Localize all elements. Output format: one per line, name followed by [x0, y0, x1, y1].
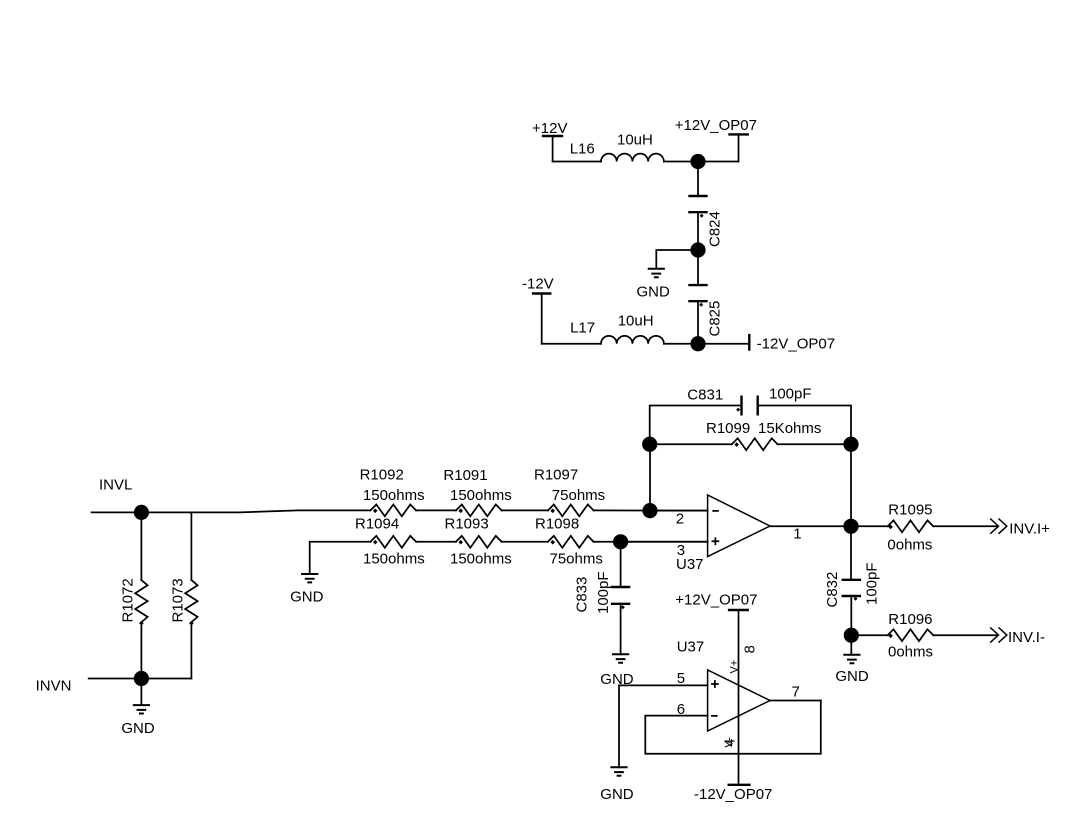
node INV.I- junction	[844, 628, 859, 643]
wire pin2 to op-amp	[650, 510, 708, 512]
node -12V_OP07 junction	[690, 336, 705, 351]
pin number 2	[676, 511, 684, 528]
inductor L16	[570, 141, 664, 162]
node +12V_OP07 junction	[690, 154, 705, 169]
node feedback right junction	[843, 437, 858, 452]
svg-text:C825: C825	[707, 301, 724, 337]
pin name V+	[728, 660, 740, 674]
wire pin3 to op-amp	[621, 541, 708, 543]
value 10uH of L17	[618, 313, 654, 330]
wire pin3 node to C833	[620, 542, 622, 587]
capacitor C833	[574, 577, 631, 613]
power port -12V	[522, 276, 554, 344]
ground	[600, 767, 634, 803]
svg-text:10uH: 10uH	[617, 131, 653, 148]
value 150ohms of R1091	[450, 487, 512, 504]
wire pin 8 power	[738, 610, 740, 785]
resistor R1073	[170, 578, 198, 625]
node GND junction	[690, 242, 705, 257]
wire feedback to output node	[850, 444, 852, 526]
pin number 8	[741, 645, 758, 653]
svg-text:150ohms: 150ohms	[363, 551, 425, 568]
net label INVL	[99, 477, 132, 494]
capacitor C825	[688, 285, 723, 336]
designator U37 second half	[677, 639, 705, 656]
wire up to C831	[650, 406, 742, 445]
svg-text:150ohms: 150ohms	[450, 487, 512, 504]
svg-text:U37: U37	[677, 639, 705, 656]
value 15Kohms of R1099	[758, 420, 821, 437]
wire op-amp output	[770, 525, 851, 527]
svg-text:150ohms: 150ohms	[363, 487, 425, 504]
wire R1091 to R1097	[502, 509, 548, 511]
resistor R1095	[888, 502, 934, 533]
svg-text:-12V_OP07: -12V_OP07	[694, 786, 772, 803]
wire INVL	[92, 510, 371, 512]
resistor R1094	[355, 516, 416, 548]
resistor R1091	[443, 467, 501, 516]
wire R1073 to INVN wire	[190, 622, 192, 678]
svg-text:100pF: 100pF	[864, 562, 881, 605]
svg-text:+12V_OP07: +12V_OP07	[675, 592, 757, 609]
svg-text:INV.I+: INV.I+	[1009, 520, 1050, 537]
svg-text:R1099: R1099	[706, 420, 750, 437]
svg-text:R1073: R1073	[170, 578, 187, 622]
wire junction to ground	[850, 635, 852, 655]
wire C831 to right side	[758, 406, 851, 445]
wire R1092 to R1091	[416, 509, 456, 511]
wire junction to C824	[697, 162, 699, 197]
svg-text:-12V: -12V	[522, 276, 554, 293]
wire C825 to -12V_OP07 node	[697, 301, 699, 344]
svg-text:R1072: R1072	[120, 578, 137, 622]
wire R1093 to R1098	[502, 541, 548, 543]
svg-text:GND: GND	[835, 668, 869, 685]
power port +12V_OP07 at pin 8	[675, 592, 757, 611]
capacitor C832	[824, 572, 861, 608]
value 75ohms of R1097	[552, 487, 605, 504]
wire to ground	[140, 679, 142, 706]
svg-text:R1092: R1092	[360, 467, 404, 484]
svg-text:+12V_OP07: +12V_OP07	[675, 117, 757, 134]
resistor R1092	[360, 467, 416, 517]
wire R1095 to off-page	[933, 525, 996, 527]
inductor L17	[570, 320, 664, 344]
wire R1072 to INVN node	[140, 622, 142, 678]
wire output node to C832	[850, 526, 852, 580]
capacitor C831	[687, 387, 757, 416]
svg-text:R1093: R1093	[445, 516, 489, 533]
value 10uH of L16	[617, 131, 653, 148]
svg-text:V+: V+	[728, 660, 740, 674]
pin number 4	[722, 739, 739, 747]
wire R1096 to off-page	[933, 634, 996, 636]
value 150ohms of R1092	[363, 487, 425, 504]
wire op-amp B output	[770, 700, 821, 702]
ground	[612, 654, 629, 662]
svg-text:R1095: R1095	[888, 502, 932, 519]
wire -12V to L17	[542, 343, 601, 345]
pin number 7	[792, 684, 800, 701]
wire R1094 to R1093	[416, 541, 456, 543]
net label GND at pin5	[600, 671, 634, 688]
ground	[121, 705, 154, 737]
value 100pF of C831	[769, 386, 812, 403]
svg-text:L17: L17	[570, 320, 595, 337]
wire R1098 to op-amp pin 3	[594, 541, 708, 543]
svg-text:R1098: R1098	[535, 516, 579, 533]
value 100pF of C833	[595, 571, 612, 614]
wire C824 to GND node	[697, 212, 699, 250]
svg-text:75ohms: 75ohms	[550, 551, 603, 568]
svg-text:C833: C833	[574, 577, 591, 613]
node INVN junction	[134, 671, 149, 686]
svg-text:150ohms: 150ohms	[450, 551, 512, 568]
value 100pF of C832	[864, 562, 881, 605]
node INVL junction	[134, 505, 149, 520]
wire C832 to lower node	[850, 596, 852, 635]
off-page connector INV.I+	[990, 519, 1050, 538]
value 0ohms of R1095	[887, 537, 932, 554]
wire GND node to C825	[697, 250, 699, 285]
power port -12V_OP07	[749, 335, 835, 352]
resistor R1072	[120, 578, 148, 625]
node pin3 junction	[613, 534, 628, 549]
op-amp U37 first half	[708, 495, 770, 557]
wire down to ground	[618, 685, 620, 767]
svg-text:10uH: 10uH	[618, 313, 654, 330]
pin number 3	[677, 542, 685, 559]
svg-text:+12V: +12V	[532, 120, 567, 137]
pin number 6	[677, 701, 685, 718]
svg-text:C831: C831	[687, 387, 723, 404]
value 150ohms of R1093	[450, 551, 512, 568]
node pin2 junction	[642, 503, 657, 518]
wire R1097 to op-amp pin 2	[594, 509, 708, 511]
wire to R1095	[851, 525, 888, 527]
svg-text:100pF: 100pF	[769, 386, 812, 403]
svg-text:V-: V-	[724, 737, 736, 748]
designator U37	[676, 556, 704, 573]
svg-text:0ohms: 0ohms	[887, 537, 932, 554]
svg-text:2: 2	[676, 511, 684, 528]
pin name V-	[724, 737, 736, 748]
wire to R1072	[140, 512, 142, 580]
wire C833 to ground	[620, 604, 622, 655]
value 0ohms of R1096	[888, 644, 933, 661]
ground for R1094 row	[290, 574, 324, 606]
svg-text:GND: GND	[290, 589, 324, 606]
svg-text:5: 5	[677, 670, 685, 687]
svg-text:GND: GND	[121, 720, 154, 737]
svg-text:7: 7	[792, 684, 800, 701]
svg-text:R1097: R1097	[534, 467, 578, 484]
wire INVN	[89, 678, 192, 680]
svg-text:INVN: INVN	[36, 678, 72, 695]
svg-text:R1091: R1091	[443, 467, 487, 484]
op-amp U37 second half triangle	[708, 670, 770, 731]
capacitor C824	[688, 196, 723, 247]
power port +12V	[532, 120, 567, 162]
wire L17 to -12V_OP07 port	[664, 343, 749, 345]
svg-text:15Kohms: 15Kohms	[758, 420, 821, 437]
resistor R1096	[888, 611, 934, 641]
svg-text:INV.I-: INV.I-	[1008, 629, 1045, 646]
svg-text:75ohms: 75ohms	[552, 487, 605, 504]
svg-text:0ohms: 0ohms	[888, 644, 933, 661]
svg-text:R1094: R1094	[355, 516, 399, 533]
pin number 1	[793, 526, 801, 543]
node feedback left junction	[642, 437, 657, 452]
svg-text:R1096: R1096	[888, 611, 932, 628]
svg-text:U37: U37	[676, 556, 704, 573]
wire +12V to L16	[553, 161, 601, 163]
resistor R1097	[534, 467, 594, 517]
svg-text:GND: GND	[637, 283, 671, 300]
value 150ohms of R1094	[363, 551, 425, 568]
svg-text:8: 8	[741, 645, 758, 653]
ground	[637, 269, 671, 301]
svg-text:C824: C824	[707, 211, 724, 247]
value 75ohms of R1098	[550, 551, 603, 568]
wire to R1096	[851, 634, 887, 636]
wire ground to R1094	[310, 542, 371, 574]
ground	[835, 655, 869, 685]
svg-text:L16: L16	[570, 141, 595, 158]
svg-text:1: 1	[793, 526, 801, 543]
wire GND to pin 5	[619, 684, 708, 686]
svg-text:C832: C832	[824, 572, 841, 608]
net label INVN	[36, 678, 72, 695]
wire to R1073	[190, 512, 192, 580]
wire L16 to +12V_OP07	[664, 161, 739, 163]
power port +12V_OP07	[675, 117, 757, 162]
svg-text:INVL: INVL	[99, 477, 132, 494]
resistor R1093	[445, 516, 502, 548]
svg-text:GND: GND	[600, 786, 634, 803]
off-page connector INV.I-	[990, 627, 1045, 646]
wire to ground symbol	[656, 250, 698, 269]
resistor R1098	[535, 516, 594, 548]
power port -12V_OP07 at pin 4	[694, 785, 772, 803]
pin number 5	[677, 670, 685, 687]
svg-text:-12V_OP07: -12V_OP07	[757, 336, 835, 353]
resistor R1099	[650, 420, 851, 450]
wire pin2 node up to feedback	[649, 444, 651, 510]
node output junction	[843, 519, 858, 534]
svg-text:100pF: 100pF	[595, 571, 612, 614]
wire pin 6 feedback	[645, 701, 821, 754]
